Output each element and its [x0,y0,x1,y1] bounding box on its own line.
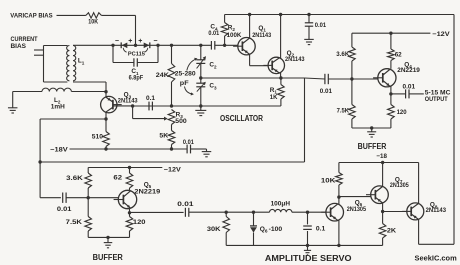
node bypass cap rail [307,13,310,16]
wire Q2 emitter [280,73,282,78]
wire buffer2 rail [88,167,162,169]
wire buffer2 bottom [88,236,129,238]
node Q5 emitter [128,211,131,214]
svg-text:0.01: 0.01 [177,201,194,208]
svg-text:PC115: PC115 [128,51,146,57]
svg-text:VARICAP BIAS: VARICAP BIAS [10,13,53,20]
wire inductor to Q6 [292,211,326,213]
node L2-Q3 junction [104,90,107,93]
svg-text:30K: 30K [207,226,221,233]
svg-text:100K: 100K [227,32,242,39]
svg-text:500: 500 [175,118,187,125]
node 62 top (buffer1) [389,32,392,35]
svg-text:0.1: 0.1 [146,95,155,102]
svg-text:−18: −18 [376,153,387,160]
wire C4 to Q1 base [215,44,238,46]
svg-text:-100: -100 [269,226,283,233]
node -18V supply [50,147,68,154]
capacitor 0.1 (Q3 coupling) [146,95,155,110]
node R1 top [279,76,282,79]
wire ground to L2 [13,91,42,93]
ground (-18V decoupling) [202,149,212,157]
wire buffer2 input [66,197,118,199]
svg-text:120: 120 [133,219,146,226]
node 30K top [225,211,228,214]
node buffer1 input [350,77,353,80]
wire varicap bias [57,14,86,16]
svg-text:2N2219: 2N2219 [397,67,420,74]
wire main tank line [73,44,211,46]
wire R3 wiper [133,106,168,121]
wire left feed vertical [40,119,61,198]
capacitor 0.01 (buffer1 input) [305,74,333,95]
resistor 5K [159,131,174,150]
wire 10K to varicap centre tap [101,15,135,45]
wire buffer1 bottom [352,127,391,129]
capacitor 0.01 (buffer2 input) [57,193,72,214]
svg-text:0.01: 0.01 [315,22,327,29]
svg-text:1mH: 1mH [51,103,65,110]
resistor R1 1K [270,78,284,106]
node -12V (buffer1) [432,31,450,38]
label AMPLITUDE SERVO [265,254,352,263]
diode Q6-100 [250,212,283,245]
wire Q2 collector [280,15,282,59]
wire Q8 collector [418,163,420,204]
node Q7 emitter [381,210,384,213]
wire buffer feed line [40,161,304,163]
wire Q3 collector bottom [105,112,107,119]
svg-text:2N1143: 2N1143 [285,56,305,63]
svg-text:OUTPUT: OUTPUT [425,96,448,103]
node 62 top (buffer2) [128,166,131,169]
svg-text:25-280: 25-280 [175,71,196,78]
svg-text:BUFFER: BUFFER [93,253,123,262]
svg-text:0.01: 0.01 [403,83,416,90]
label OSCILLATOR [220,114,263,123]
wire Q7 collector [382,163,384,188]
svg-text:6.8pF: 6.8pF [129,75,144,82]
node PC115 centre [134,44,137,47]
wire Q3 collector line [40,118,106,120]
node servo ground junction [306,244,309,247]
svg-text:62: 62 [113,175,122,182]
wire right edge feedback [453,15,455,245]
svg-text:7.5K: 7.5K [66,219,83,226]
node Q4 emitter [389,92,392,95]
svg-text:2N2219: 2N2219 [134,188,160,195]
resistor 10K (varicap bias) [86,13,102,26]
transistor Q5 2N2219 [114,181,161,208]
node feed line left [38,160,41,163]
svg-text:24K: 24K [156,72,169,79]
wire buffer1 input [328,78,378,80]
node Q6 emitter bottom [337,244,340,247]
label varicap polarity [115,38,158,45]
wire Q5 output [130,211,184,213]
svg-text:2K: 2K [387,228,397,235]
svg-text:0.01: 0.01 [183,139,194,146]
potentiometer R3 500 [168,110,187,131]
svg-text:AMPLITUDE SERVO: AMPLITUDE SERVO [265,254,352,263]
resistor 3.6K (buffer2) [66,168,91,198]
svg-text:CURRENT: CURRENT [11,36,39,43]
svg-text:0.01: 0.01 [208,30,219,37]
capacitor C1 6.8pF [113,45,158,81]
node R3 top [170,104,173,107]
svg-text:2N1305: 2N1305 [347,206,367,213]
capacitor 0.01 (rail bypass) [305,15,327,40]
wire Q3 base to 0.1 [113,105,133,107]
terminal current bias [34,50,44,55]
svg-text:7.5K: 7.5K [337,108,350,115]
ground (buffer1) [367,126,376,137]
svg-text:OSCILLATOR: OSCILLATOR [220,114,263,123]
svg-text:−18V: −18V [50,147,68,154]
label BUFFER (2) [93,253,123,262]
wire Q8 emitter loop [419,219,454,244]
transistor Q3 2N1143 [101,92,138,113]
resistor R2 100K [221,15,242,46]
node 5-15 MC OUTPUT [409,89,451,103]
resistor 7.5K (buffer1) [337,79,356,128]
ground (L2 return) [8,92,18,114]
node PC115 left [111,44,114,47]
wire buffer feed vertical [304,78,306,162]
svg-text:2N1143: 2N1143 [426,208,447,214]
transistor Q4 2N2219 [373,61,420,87]
wire Q1 emitter to Q2 base [250,54,269,65]
wire tank tap to emitter [201,77,281,79]
node -18 supply [376,153,387,160]
svg-text:BIAS: BIAS [11,43,27,50]
svg-text:10K: 10K [321,177,336,184]
transistor Q8 2N1143 [402,202,447,220]
capacitor 0.01 (output) [391,83,416,98]
inductor L2 1mH [42,88,71,110]
svg-text:2N1305: 2N1305 [390,182,409,189]
wire oscillator output line [133,105,281,107]
wire -18 rail (servo) [339,162,419,164]
svg-text:−12V: −12V [164,166,182,173]
svg-text:SeekIC.com: SeekIC.com [415,253,458,262]
wire Q6 emitter [338,220,340,245]
transistor Q6 2N1305 [321,200,366,222]
svg-text:+: + [128,38,132,45]
wire Q1 collector [249,15,251,39]
resistor 120 (buffer1) [388,94,407,128]
svg-text:pF: pF [180,80,189,87]
node Q2 collector rail [279,13,282,16]
resistor 24K [156,45,175,106]
capacitor 0.01 (-18V decoupling) [183,139,194,154]
capacitor C3 (variable) [185,78,218,106]
ground (rail bypass) [304,39,314,44]
node CURRENT BIAS input [11,36,39,50]
wire Q7 emitter to Q8 base [383,211,407,213]
resistor 62 (buffer2) [113,168,132,191]
node C2 top [199,44,202,47]
ground (buffer2) [104,236,113,248]
resistor 30K [207,212,230,245]
wire Q4 emitter [390,86,392,94]
svg-text:0.1: 0.1 [316,225,326,232]
svg-text:10K: 10K [88,19,98,26]
svg-text:120: 120 [397,109,407,116]
wire servo bottom rail [226,244,382,246]
transformer L1 [67,46,85,81]
node Q1 collector rail [248,13,251,16]
wire servo line [189,211,270,213]
node 24K top [170,44,173,47]
wire Q5 emitter [129,208,131,213]
transistor Q7 2N1305 [366,177,409,204]
label 25-280 pF [175,71,196,87]
wire cap to ground [191,148,207,150]
node -12V (buffer2) [164,166,182,173]
node Q7 collector rail [381,161,384,164]
capacitor C2 (variable) [187,45,217,78]
node R2 bottom [223,44,226,47]
node C2-C3 midpoint [199,76,202,79]
varicap diode pair PC115 [121,42,150,57]
node Q3 collector [104,117,107,120]
ground (servo) [304,245,311,254]
resistor 120 (buffer2) [126,213,146,238]
capacitor 0.01 (servo coupling) [177,201,194,217]
resistor 510 [92,119,110,149]
svg-text:−: − [153,38,157,45]
svg-text:−12V: −12V [432,31,450,38]
wire L2 to Q3 [71,91,106,93]
svg-text:5K: 5K [159,132,168,139]
label BUFFER (1) [358,142,387,151]
wire current bias loop [44,46,68,83]
resistor 62 (buffer1) [388,33,403,69]
svg-text:−: − [115,38,119,45]
svg-text:0.01: 0.01 [320,88,333,95]
node osc ground junction [199,104,202,107]
inductor 100uH [270,200,292,212]
node 0.1 junction [131,104,134,107]
wire top rail [225,14,454,16]
label SeekIC.com [415,253,458,262]
svg-text:2N1143: 2N1143 [118,97,138,104]
svg-text:510: 510 [92,133,104,140]
node PC115 right [156,44,159,47]
transistor Q1 2N1143 [233,25,272,55]
node diode top [252,211,255,214]
svg-text:3.6K: 3.6K [66,175,83,182]
resistor 3.6K (buffer1) [336,33,355,79]
wire to buffer1 input [281,77,305,79]
capacitor 0.1 (servo) [303,212,326,245]
resistor 7.5K (buffer2) [66,198,92,238]
wire Q7 emitter [382,203,384,212]
resistor 10K (servo) [321,163,342,198]
node 510 bottom [104,147,107,150]
ground (oscillator) [195,106,206,116]
transistor Q2 2N1143 [263,50,305,74]
svg-text:2N1143: 2N1143 [252,32,271,39]
svg-text:100μH: 100μH [271,200,291,207]
svg-text:3.6K: 3.6K [336,51,349,58]
svg-text:0.01: 0.01 [57,206,72,213]
capacitor C4 0.01 [208,24,219,50]
node buffer2 input [87,196,90,199]
svg-text:62: 62 [395,51,402,58]
wire buffer1 rail [352,32,431,34]
node 5K bottom [170,147,173,150]
svg-text:+: + [138,38,142,45]
node servo cap top [306,211,309,214]
node VARICAP BIAS input [10,13,53,20]
wire Q6 collector [338,197,340,204]
node Q6 collector [337,195,340,198]
svg-text:1K: 1K [270,94,278,101]
wire -18V rail [70,148,188,150]
svg-text:BUFFER: BUFFER [358,142,387,151]
resistor 2K [379,212,396,246]
wire Q6 to Q7 base [339,196,371,198]
wire L1 bottom to Q3 [73,82,106,97]
